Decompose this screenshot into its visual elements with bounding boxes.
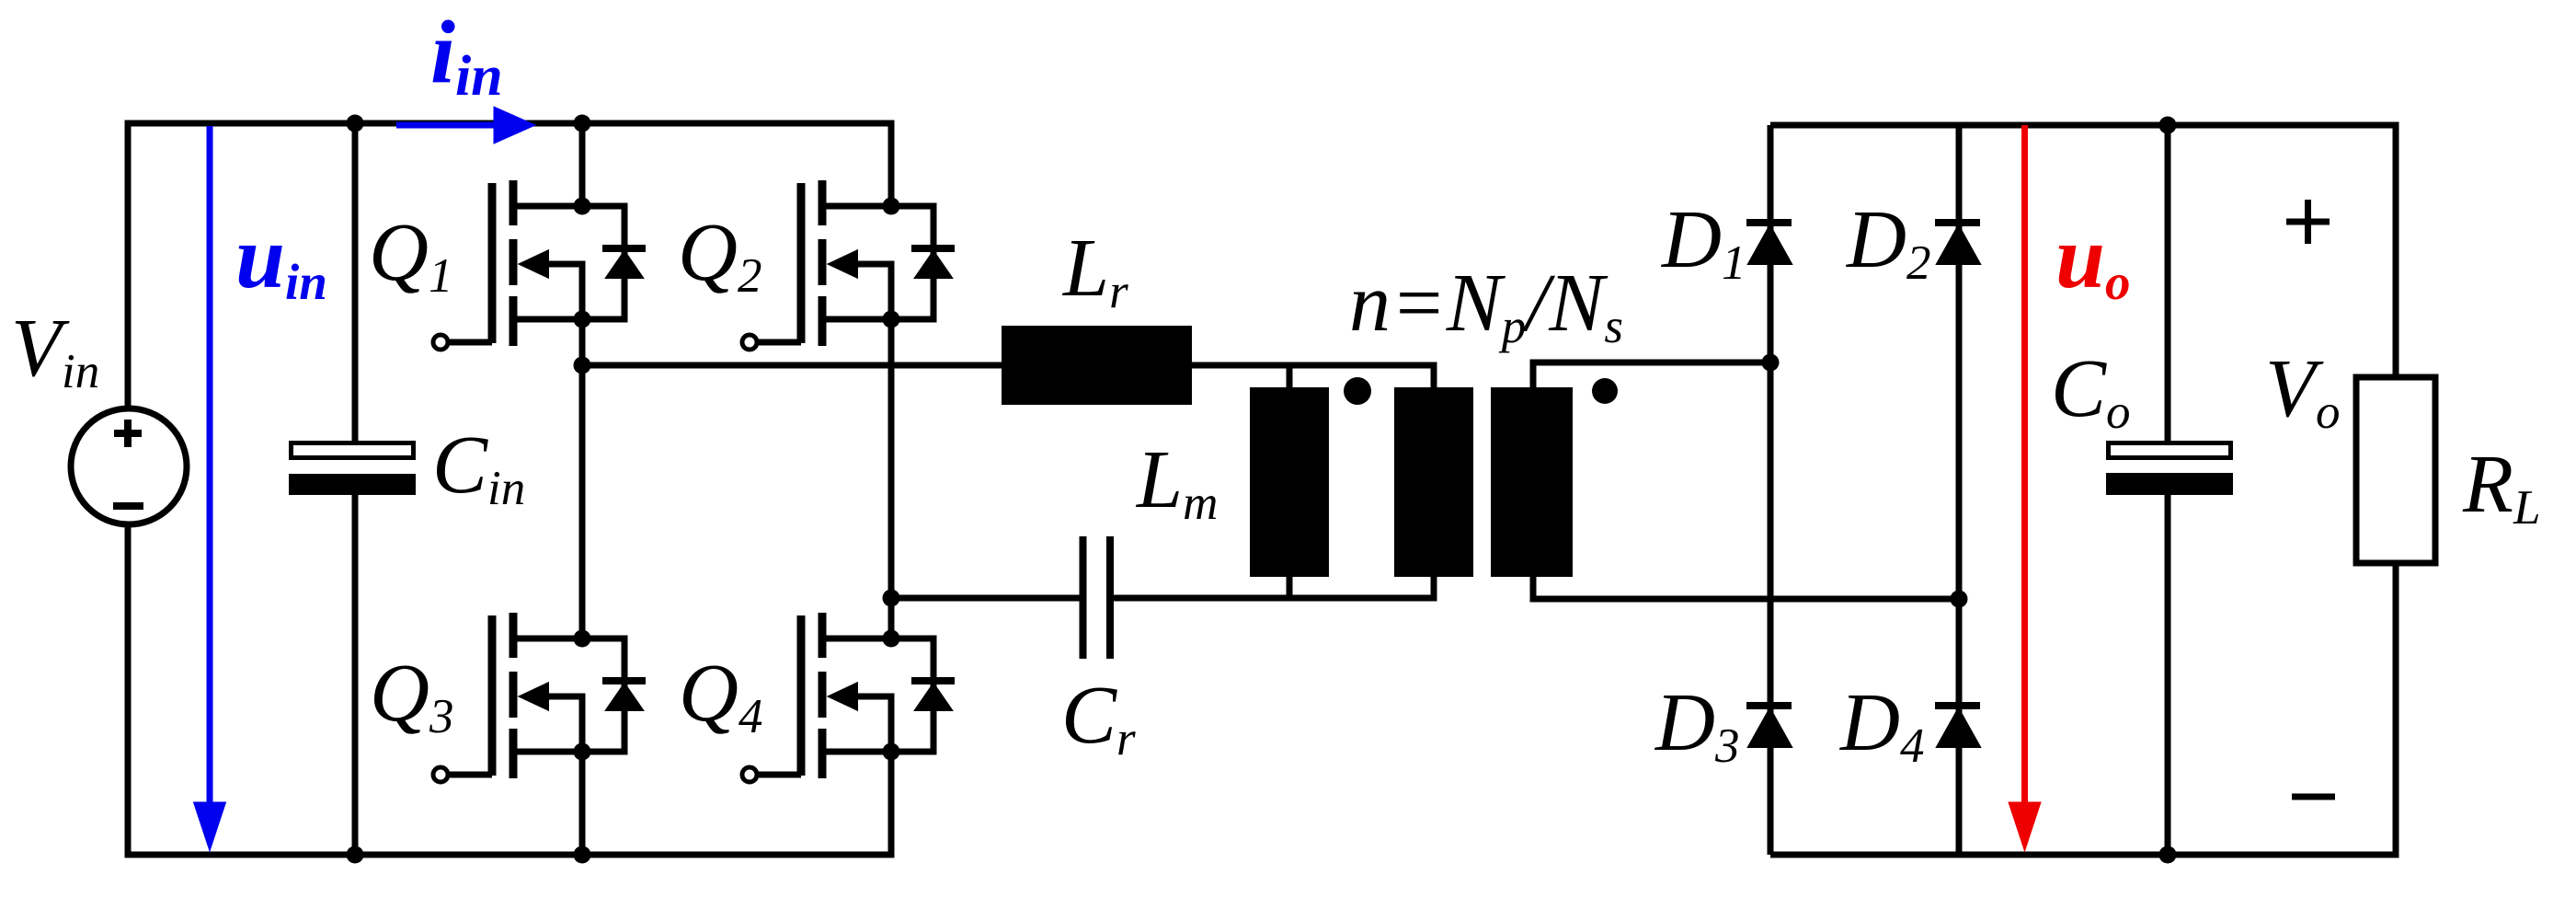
wire Cr to transformer primary bottom bbox=[1114, 577, 1434, 598]
svg-text:Q4: Q4 bbox=[679, 648, 763, 743]
inductor Lr body bbox=[1002, 326, 1192, 405]
svg-text:D3: D3 bbox=[1654, 677, 1740, 773]
capacitor Cin branch wire lower bbox=[352, 495, 359, 855]
node dot secondary top at D1 column bbox=[1762, 354, 1780, 372]
wire secondary top to D1/D3 node bbox=[1533, 362, 1770, 387]
node dot Q1 drain bbox=[574, 198, 591, 215]
V1 plus sign bbox=[114, 420, 142, 447]
svg-text:Vin: Vin bbox=[11, 303, 99, 398]
wire secondary bottom to D2/D4 node bbox=[1533, 577, 1959, 599]
transformer Lm bottom stub bbox=[1287, 577, 1293, 599]
node dot Q3 source bbox=[574, 743, 591, 761]
svg-text:Co: Co bbox=[2051, 343, 2131, 439]
diode D4 bbox=[1935, 706, 1980, 747]
wire D1/D3 column bbox=[1768, 125, 1774, 855]
node dot secondary bottom at D2 column bbox=[1951, 591, 1968, 608]
svg-text:Lm: Lm bbox=[1135, 434, 1218, 530]
diode D1 bbox=[1746, 223, 1792, 264]
node dot Q4 drain bbox=[883, 630, 900, 648]
diode D2 bbox=[1935, 223, 1980, 264]
minus sign output bbox=[2292, 794, 2335, 800]
capacitor Cin branch wire upper bbox=[352, 123, 359, 442]
svg-text:D4: D4 bbox=[1838, 677, 1925, 773]
transformer Lm winding bbox=[1250, 387, 1329, 577]
node dot Q2 source bbox=[883, 311, 900, 328]
blue input voltage arrow u_in bbox=[194, 126, 226, 851]
svg-text:Cr: Cr bbox=[1061, 670, 1136, 765]
blue input current arrow i_in bbox=[396, 107, 535, 144]
node dot Q3 drain bbox=[574, 630, 591, 648]
MOSFET Q3 symbol bbox=[433, 613, 646, 782]
capacitor Cr left plate bbox=[1080, 536, 1087, 659]
capacitor Co bottom plate bbox=[2106, 473, 2233, 495]
capacitor Cr right plate bbox=[1106, 536, 1114, 659]
node dot B rail bbox=[883, 590, 900, 607]
V1 minus sign bbox=[113, 502, 143, 510]
transformer primary winding bbox=[1394, 387, 1473, 577]
node dot Q1 source bbox=[574, 311, 591, 328]
resistor RL body bbox=[2356, 377, 2435, 563]
transformer secondary winding bbox=[1491, 387, 1573, 577]
svg-text:D2: D2 bbox=[1845, 194, 1931, 290]
red output voltage arrow u_o bbox=[2009, 125, 2041, 851]
svg-text:uo: uo bbox=[2055, 208, 2130, 310]
node dot Co bottom bbox=[2159, 846, 2177, 864]
svg-text:Q2: Q2 bbox=[678, 207, 762, 303]
wire D2/D4 column bbox=[1956, 125, 1963, 855]
capacitor Co branch wire upper bbox=[2165, 125, 2171, 441]
node dot Cin top bbox=[347, 115, 364, 132]
node dot A mid rail bbox=[574, 357, 591, 374]
wire Q1 source to Q3 drain bbox=[579, 319, 586, 638]
diode D3 bbox=[1746, 706, 1792, 747]
capacitor Co branch wire lower bbox=[2165, 495, 2171, 855]
capacitor Cin bottom plate bbox=[289, 474, 416, 495]
voltage source V1 circle bbox=[71, 408, 187, 524]
MOSFET Q4 symbol bbox=[742, 613, 955, 782]
node dot Q1 top rail bbox=[574, 115, 591, 132]
svg-text:Vo: Vo bbox=[2265, 343, 2340, 439]
wire bottom rail right to load bbox=[1770, 563, 2396, 855]
node dot Q3 bottom rail bbox=[574, 846, 591, 864]
transformer Lm top stub bbox=[1287, 365, 1293, 387]
transformer secondary polarity dot bbox=[1592, 378, 1618, 404]
transformer primary polarity dot bbox=[1344, 377, 1371, 405]
node dot Q4 source bbox=[883, 743, 900, 761]
svg-text:Cin: Cin bbox=[432, 420, 525, 515]
node A rail (Q1/Q3 midpoint to transformer primary) bbox=[582, 365, 1434, 387]
MOSFET Q2 symbol bbox=[742, 180, 955, 350]
wire Q1 drain from top rail bbox=[579, 123, 586, 206]
wire bottom rail left with Q4 source corner bbox=[128, 524, 891, 855]
capacitor Cin top plate bbox=[292, 443, 414, 458]
svg-text:Q1: Q1 bbox=[369, 207, 453, 303]
svg-text:Lr: Lr bbox=[1061, 223, 1128, 318]
node dot Co top bbox=[2159, 117, 2177, 134]
node B rail (Q2/Q4 midpoint to Cr) bbox=[891, 595, 1080, 602]
capacitor Co top plate bbox=[2109, 443, 2231, 458]
wire top rail right to load bbox=[1770, 125, 2396, 377]
wire Q2 source to Q4 drain bbox=[888, 319, 895, 638]
svg-text:n=Np/Ns: n=Np/Ns bbox=[1349, 258, 1623, 353]
node dot Q2 drain bbox=[883, 198, 900, 215]
MOSFET Q1 symbol bbox=[433, 180, 646, 350]
svg-text:D1: D1 bbox=[1660, 194, 1746, 290]
node dot Cin bottom bbox=[347, 846, 364, 864]
svg-text:uin: uin bbox=[235, 208, 327, 310]
svg-text:iin: iin bbox=[430, 3, 503, 108]
wire top rail left with Q2 drain corner bbox=[128, 123, 891, 408]
wire Q3 source to bottom rail bbox=[579, 752, 586, 855]
plus sign output bbox=[2286, 200, 2330, 244]
svg-text:Q3: Q3 bbox=[370, 648, 454, 743]
svg-text:RL: RL bbox=[2462, 439, 2540, 535]
